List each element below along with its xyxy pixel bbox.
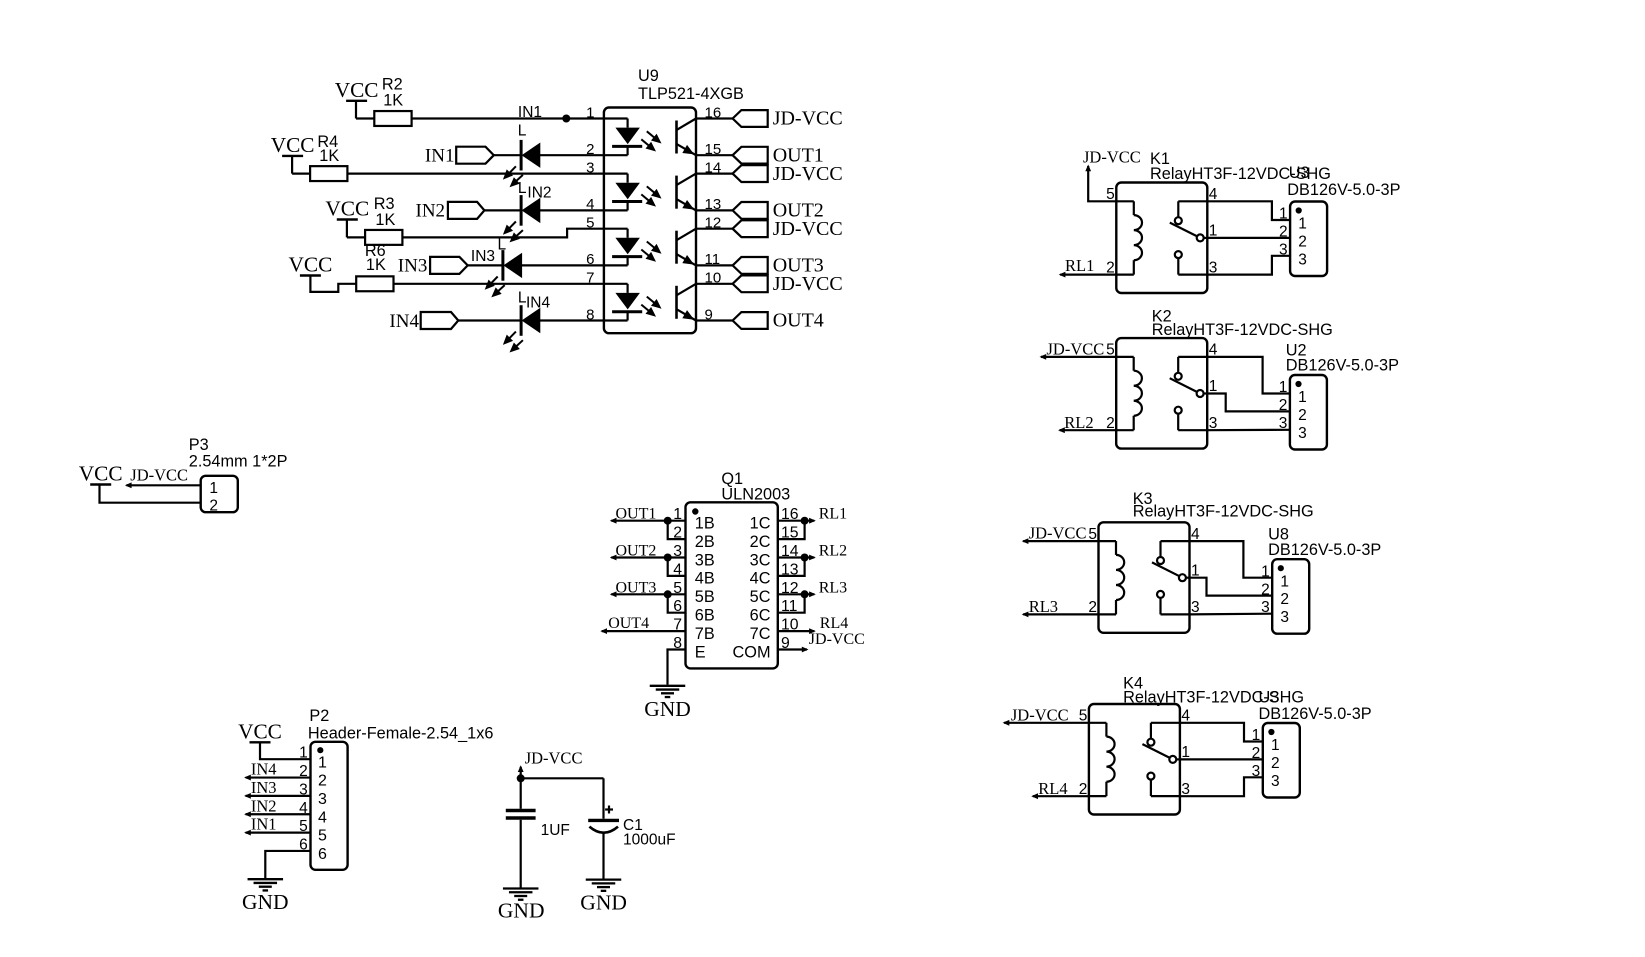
svg-text:4B: 4B xyxy=(695,570,715,588)
svg-text:1K: 1K xyxy=(383,92,403,110)
svg-text:GND: GND xyxy=(580,891,627,915)
svg-text:P2: P2 xyxy=(309,707,329,725)
svg-text:P3: P3 xyxy=(189,436,209,454)
svg-text:IN3: IN3 xyxy=(471,248,495,265)
svg-text:VCC: VCC xyxy=(238,719,282,743)
svg-text:1C: 1C xyxy=(750,515,771,533)
svg-text:IN4: IN4 xyxy=(251,760,277,779)
svg-text:1: 1 xyxy=(1298,216,1307,233)
svg-text:IN1: IN1 xyxy=(425,146,455,167)
svg-text:U3: U3 xyxy=(1289,164,1310,182)
svg-text:VCC: VCC xyxy=(325,197,369,221)
svg-text:OUT2: OUT2 xyxy=(616,543,657,560)
svg-text:4: 4 xyxy=(318,809,327,826)
svg-text:1: 1 xyxy=(1280,573,1289,590)
svg-text:U9: U9 xyxy=(638,67,659,85)
svg-text:7B: 7B xyxy=(695,625,715,643)
svg-text:TLP521-4XGB: TLP521-4XGB xyxy=(638,85,744,103)
svg-text:IN4: IN4 xyxy=(526,295,551,312)
svg-text:4C: 4C xyxy=(750,570,771,588)
svg-text:OUT4: OUT4 xyxy=(608,615,649,632)
svg-text:JD-VCC: JD-VCC xyxy=(1011,706,1069,725)
svg-text:JD-VCC: JD-VCC xyxy=(525,749,583,768)
svg-text:RL4: RL4 xyxy=(820,615,848,632)
svg-text:VCC: VCC xyxy=(79,462,123,486)
svg-text:1B: 1B xyxy=(695,515,715,533)
svg-text:1: 1 xyxy=(318,754,327,771)
svg-text:2: 2 xyxy=(1298,234,1307,251)
svg-text:E: E xyxy=(695,643,706,661)
svg-text:JD-VCC: JD-VCC xyxy=(1047,339,1105,358)
svg-text:5C: 5C xyxy=(750,588,771,606)
svg-text:2C: 2C xyxy=(750,533,771,551)
svg-text:RL4: RL4 xyxy=(1038,779,1067,798)
svg-text:2.54mm 1*2P: 2.54mm 1*2P xyxy=(189,453,288,471)
svg-text:Header-Female-2.54_1x6: Header-Female-2.54_1x6 xyxy=(308,725,494,743)
svg-text:L: L xyxy=(498,237,507,254)
svg-text:IN1: IN1 xyxy=(518,104,542,121)
svg-text:JD-VCC: JD-VCC xyxy=(130,466,188,485)
svg-text:OUT3: OUT3 xyxy=(616,579,657,596)
svg-text:RL2: RL2 xyxy=(1064,413,1093,432)
svg-text:2: 2 xyxy=(1298,407,1307,424)
svg-text:DB126V-5.0-3P: DB126V-5.0-3P xyxy=(1287,181,1400,199)
svg-text:3: 3 xyxy=(1280,609,1289,626)
svg-text:IN2: IN2 xyxy=(527,185,551,202)
svg-text:3: 3 xyxy=(1271,773,1280,790)
svg-text:IN3: IN3 xyxy=(398,256,428,277)
svg-text:JD-VCC: JD-VCC xyxy=(773,108,843,130)
svg-text:VCC: VCC xyxy=(289,253,333,277)
svg-text:1: 1 xyxy=(209,480,218,497)
svg-text:6: 6 xyxy=(318,846,327,863)
svg-text:RelayHT3F-12VDC-SHG: RelayHT3F-12VDC-SHG xyxy=(1152,321,1333,339)
svg-text:L: L xyxy=(518,123,527,140)
svg-text:DB126V-5.0-3P: DB126V-5.0-3P xyxy=(1259,705,1372,723)
svg-text:JD-VCC: JD-VCC xyxy=(809,631,865,648)
svg-text:1UF: 1UF xyxy=(541,822,570,839)
svg-text:RL3: RL3 xyxy=(1029,597,1058,616)
svg-text:6C: 6C xyxy=(750,607,771,625)
svg-text:L: L xyxy=(518,180,527,197)
svg-text:IN2: IN2 xyxy=(251,796,277,815)
svg-text:GND: GND xyxy=(644,697,691,721)
svg-text:RL2: RL2 xyxy=(819,543,847,560)
svg-text:3: 3 xyxy=(318,791,327,808)
svg-text:VCC: VCC xyxy=(335,78,379,102)
svg-text:2: 2 xyxy=(1271,755,1280,772)
svg-text:7C: 7C xyxy=(750,625,771,643)
svg-text:5: 5 xyxy=(318,828,327,845)
svg-text:5B: 5B xyxy=(695,588,715,606)
svg-text:OUT4: OUT4 xyxy=(773,310,824,332)
svg-text:DB126V-5.0-3P: DB126V-5.0-3P xyxy=(1286,357,1399,375)
svg-text:1K: 1K xyxy=(366,256,386,274)
svg-text:1: 1 xyxy=(299,745,308,762)
svg-text:RL1: RL1 xyxy=(1065,256,1094,275)
svg-text:JD-VCC: JD-VCC xyxy=(1083,148,1141,167)
svg-text:1: 1 xyxy=(1298,389,1307,406)
svg-text:GND: GND xyxy=(242,890,289,914)
svg-text:COM: COM xyxy=(733,643,771,661)
svg-text:IN1: IN1 xyxy=(251,815,277,834)
svg-text:RL3: RL3 xyxy=(819,579,847,596)
svg-text:JD-VCC: JD-VCC xyxy=(773,163,843,185)
svg-text:ULN2003: ULN2003 xyxy=(721,486,790,504)
svg-text:IN3: IN3 xyxy=(251,778,277,797)
svg-text:RL1: RL1 xyxy=(819,506,847,523)
svg-text:IN2: IN2 xyxy=(416,201,446,222)
svg-text:GND: GND xyxy=(498,899,545,923)
svg-text:JD-VCC: JD-VCC xyxy=(773,218,843,240)
svg-text:IN4: IN4 xyxy=(389,311,419,332)
svg-text:1K: 1K xyxy=(375,211,395,229)
svg-text:2: 2 xyxy=(209,498,218,515)
svg-text:3B: 3B xyxy=(695,551,715,569)
svg-text:3: 3 xyxy=(1298,425,1307,442)
svg-text:3C: 3C xyxy=(750,551,771,569)
svg-text:1K: 1K xyxy=(319,147,339,165)
svg-text:6B: 6B xyxy=(695,607,715,625)
svg-text:2B: 2B xyxy=(695,533,715,551)
svg-text:OUT1: OUT1 xyxy=(616,506,657,523)
svg-text:1: 1 xyxy=(1271,737,1280,754)
svg-text:JD-VCC: JD-VCC xyxy=(1029,524,1087,543)
svg-text:JD-VCC: JD-VCC xyxy=(773,273,843,295)
svg-text:RelayHT3F-12VDC-SHG: RelayHT3F-12VDC-SHG xyxy=(1133,503,1314,521)
svg-text:DB126V-5.0-3P: DB126V-5.0-3P xyxy=(1268,541,1381,559)
svg-text:3: 3 xyxy=(1298,251,1307,268)
svg-text:U3: U3 xyxy=(1259,688,1280,706)
svg-text:VCC: VCC xyxy=(271,133,315,157)
svg-text:2: 2 xyxy=(318,773,327,790)
svg-text:1000uF: 1000uF xyxy=(623,831,676,848)
svg-text:2: 2 xyxy=(1280,591,1289,608)
